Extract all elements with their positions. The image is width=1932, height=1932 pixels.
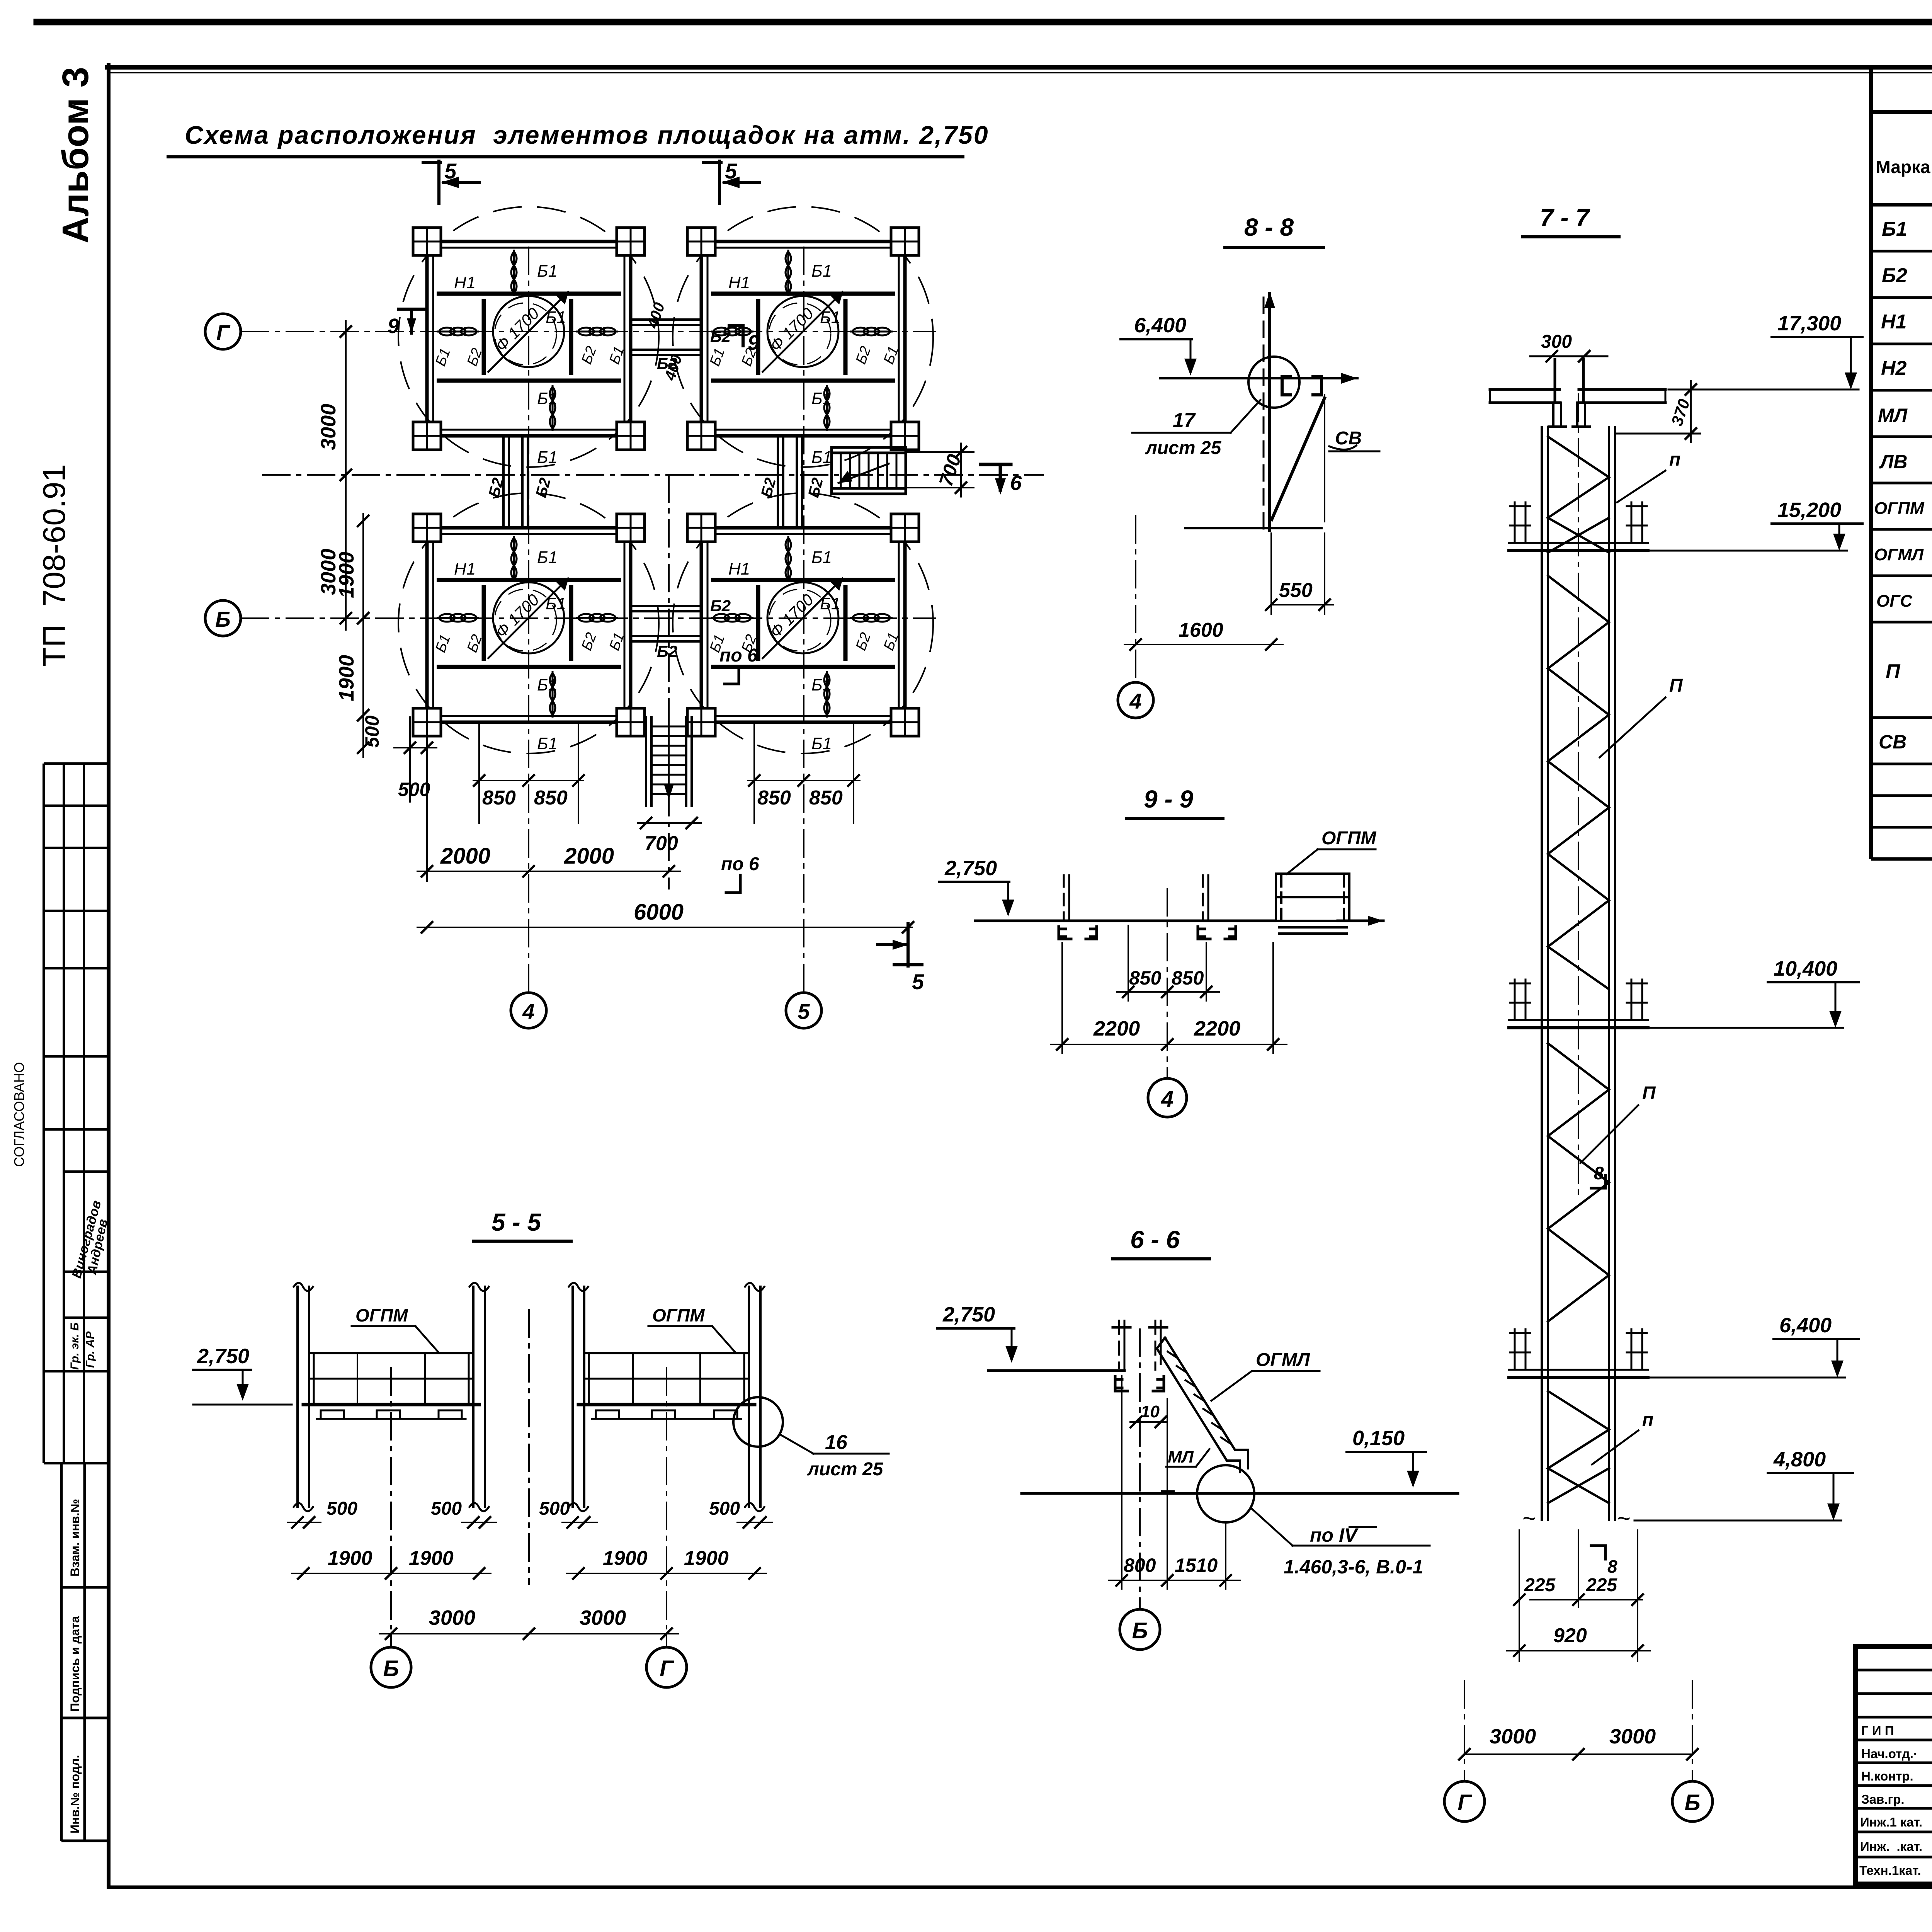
dim 3000 3000 with bubbles (1464, 1753, 1692, 1755)
section mark 9 right small (729, 326, 743, 346)
svg-text:1900: 1900 (328, 1547, 372, 1570)
svg-text:850: 850 (809, 787, 843, 809)
axis bubble 4 (1167, 889, 1168, 1078)
svg-text:СВ: СВ (1879, 731, 1906, 753)
column dashed verticals (1119, 1321, 1161, 1370)
svg-text:4,800: 4,800 (1773, 1448, 1826, 1471)
svg-text:Взам. инв.№: Взам. инв.№ (68, 1499, 82, 1577)
bottom floor line (1185, 527, 1321, 529)
svg-text:Инж. .кат.: Инж. .кат. (1860, 1839, 1922, 1854)
svg-text:ЛВ: ЛВ (1879, 451, 1907, 473)
svg-text:17: 17 (1173, 409, 1196, 432)
svg-text:225: 225 (1524, 1575, 1556, 1595)
left channel post (1064, 875, 1069, 920)
upper stamp grid (44, 764, 109, 1463)
leader and label 17 / лист 25 (1231, 400, 1260, 433)
dims 850 850 left square (473, 780, 583, 781)
svg-text:2000: 2000 (440, 844, 490, 869)
svg-text:Н.контр.: Н.контр. (1861, 1769, 1913, 1783)
svg-text:3000: 3000 (1609, 1725, 1656, 1748)
svg-text:16: 16 (825, 1431, 848, 1454)
svg-text:4: 4 (522, 999, 534, 1024)
right stair width dim 700 (960, 444, 962, 497)
svg-text:ОГМЛ: ОГМЛ (1874, 545, 1924, 564)
svg-text:ОГС: ОГС (1876, 592, 1913, 611)
svg-text:лист 25: лист 25 (807, 1459, 884, 1480)
section mark 6 right (981, 464, 1011, 490)
section marks 5 top (423, 161, 479, 204)
platform level 15.200 (1509, 502, 1648, 551)
svg-text:6000: 6000 (634, 900, 684, 925)
personnel labels (1859, 1723, 1922, 1878)
link beams between TL-TR (631, 320, 701, 355)
svg-text:Б2: Б2 (657, 642, 677, 660)
svg-text:2000: 2000 (564, 844, 614, 869)
lower landing (1227, 1450, 1248, 1472)
svg-text:по 6: по 6 (721, 854, 759, 874)
svg-text:Б: Б (215, 607, 231, 631)
svg-text:2200: 2200 (1093, 1017, 1140, 1040)
bottom dims (1530, 1599, 1642, 1600)
svg-text:2200: 2200 (1194, 1017, 1240, 1040)
svg-text:МЛ: МЛ (1878, 405, 1908, 426)
grid mid axis dash-dot (263, 474, 1043, 476)
dims 850 850 right square (748, 780, 860, 781)
grid axis 5 vertical dash-dot (803, 247, 804, 991)
svg-text:1900: 1900 (603, 1547, 648, 1570)
title underline (168, 155, 963, 158)
assembly B (shifted +712) (569, 1283, 764, 1511)
svg-text:7 - 7: 7 - 7 (1540, 204, 1590, 231)
svg-text:Н1: Н1 (1881, 311, 1906, 333)
svg-text:1510: 1510 (1175, 1554, 1218, 1576)
svg-text:8: 8 (1594, 1163, 1604, 1183)
svg-text:Гр. эк. Б: Гр. эк. Б (68, 1323, 81, 1370)
svg-text:500: 500 (327, 1498, 357, 1519)
frame left line (107, 65, 111, 1887)
svg-text:2,750: 2,750 (944, 857, 997, 880)
grid bubble 5 (786, 993, 821, 1028)
dims 850 850 (1117, 991, 1219, 993)
column top posts (I-beam stubs) (1549, 403, 1590, 427)
svg-text:п: п (1669, 449, 1680, 470)
svg-text:5 - 5: 5 - 5 (492, 1208, 541, 1236)
dim 1900 1900 x2 (292, 1573, 491, 1574)
vertical post solid+dashed (1268, 294, 1271, 530)
svg-text:по 6: по 6 (719, 645, 758, 666)
svg-text:4: 4 (1129, 689, 1141, 713)
svg-text:850: 850 (1172, 967, 1204, 989)
outer borders (1869, 69, 1873, 859)
svg-text:5: 5 (725, 159, 737, 183)
svg-text:500: 500 (539, 1498, 570, 1519)
svg-text:ОГПМ: ОГПМ (1321, 828, 1376, 849)
svg-text:3000: 3000 (317, 404, 340, 450)
section marks 5 bottom (878, 923, 922, 966)
ground line (1022, 1492, 1458, 1495)
svg-text:П: П (1642, 1083, 1656, 1104)
svg-text:1900: 1900 (335, 655, 358, 701)
frame top line (107, 65, 1932, 70)
svg-text:9: 9 (748, 331, 759, 354)
lower stamp strip (61, 1463, 109, 1841)
link beams between TL-BL vertical (503, 437, 528, 527)
svg-text:Б: Б (1684, 1790, 1700, 1815)
svg-text:Г: Г (660, 1656, 674, 1681)
svg-text:1900: 1900 (335, 552, 358, 598)
svg-text:5: 5 (798, 999, 810, 1024)
dim 700 bottom stair (638, 822, 701, 824)
svg-text:Б2: Б2 (710, 327, 731, 345)
right stair (hatched) (832, 447, 906, 494)
channel glyphs at joint (1282, 377, 1291, 395)
svg-text:1600: 1600 (1179, 619, 1223, 641)
svg-text:Н2: Н2 (1881, 357, 1907, 379)
svg-text:6,400: 6,400 (1779, 1314, 1832, 1337)
svg-text:17,300: 17,300 (1777, 312, 1841, 335)
dims 2200 2200 (1051, 1044, 1287, 1045)
axis to bubble 4 (1135, 516, 1136, 681)
columns (298, 1287, 485, 1507)
svg-text:550: 550 (1279, 579, 1313, 602)
section marks 8 (1591, 1175, 1605, 1188)
leader to по IV (1252, 1509, 1293, 1546)
platform level 10.400 (1509, 980, 1648, 1028)
ladder steps (1168, 1352, 1231, 1444)
svg-text:СОГЛАСОВАНО: СОГЛАСОВАНО (11, 1062, 27, 1167)
top platform (two plates with gap) (1490, 388, 1560, 391)
header bottom (1871, 203, 1932, 207)
floor line (975, 920, 1275, 922)
svg-text:Г: Г (216, 320, 231, 345)
assembly A (294, 1283, 489, 1511)
svg-text:1900: 1900 (684, 1547, 729, 1570)
ladder stringer double (1165, 1338, 1235, 1450)
channel glyphs below floor (1115, 1376, 1128, 1391)
svg-text:МЛ: МЛ (1168, 1447, 1194, 1466)
svg-text:ОГМЛ: ОГМЛ (1256, 1350, 1310, 1370)
svg-text:П: П (1886, 660, 1901, 683)
svg-text:Альбом 3: Альбом 3 (55, 67, 96, 243)
bottom small dim 500 (left square) (394, 747, 437, 748)
break marks (294, 1283, 313, 1291)
svg-text:5: 5 (444, 159, 457, 183)
grid axis Г dash-dot (241, 331, 935, 332)
svg-text:9: 9 (388, 315, 399, 338)
svg-text:225: 225 (1586, 1575, 1617, 1595)
svg-text:лист 25: лист 25 (1145, 438, 1222, 458)
svg-text:Нач.отд.·: Нач.отд.· (1861, 1747, 1918, 1761)
detail circle (1197, 1465, 1254, 1522)
svg-text:ОГПМ: ОГПМ (355, 1305, 408, 1325)
svg-text:Б2: Б2 (1882, 264, 1907, 287)
svg-text:0,150: 0,150 (1352, 1427, 1405, 1450)
svg-text:Подпись и дата: Подпись и дата (68, 1616, 82, 1712)
svg-text:Техн.1кат.: Техн.1кат. (1859, 1863, 1921, 1878)
svg-text:Гр. АР: Гр. АР (84, 1331, 97, 1368)
svg-text:Г: Г (1458, 1790, 1472, 1815)
svg-text:Б1: Б1 (1882, 218, 1907, 240)
svg-text:850: 850 (482, 787, 516, 809)
svg-text:3000: 3000 (1490, 1725, 1536, 1748)
dims 800 1510 (1109, 1580, 1240, 1581)
svg-text:850: 850 (757, 787, 791, 809)
grid axis Б dash-dot (241, 617, 935, 619)
svg-text:ТП 708-60.91: ТП 708-60.91 (37, 464, 72, 667)
stair axis vertical dash-dot (668, 475, 670, 889)
under-floor supports (317, 1410, 466, 1419)
platform level 6.400 (1509, 1329, 1648, 1378)
svg-text:8 - 8: 8 - 8 (1244, 213, 1294, 241)
top thick edge line (37, 19, 1932, 26)
svg-text:6,400: 6,400 (1134, 314, 1186, 337)
svg-text:6 - 6: 6 - 6 (1130, 1226, 1180, 1253)
svg-text:Б: Б (1132, 1618, 1148, 1643)
top level line with arrow right (1160, 377, 1357, 379)
svg-text:3000: 3000 (429, 1606, 475, 1629)
column axis dash-dot (1578, 394, 1579, 1198)
svg-text:850: 850 (534, 787, 568, 809)
OGPM frame right (1276, 874, 1349, 934)
svg-text:300: 300 (1541, 332, 1572, 352)
grid axis 4 vertical dash-dot (528, 247, 529, 991)
floor line (988, 1369, 1124, 1372)
svg-text:Схема расположения элементов: Схема расположения элементов площадок на… (185, 121, 989, 149)
svg-text:~: ~ (1617, 1505, 1631, 1531)
bottom stair (ladder between BL and BR) (646, 717, 692, 806)
svg-text:Б: Б (383, 1656, 399, 1681)
svg-text:500: 500 (709, 1498, 740, 1519)
svg-text:ОГПМ: ОГПМ (1874, 499, 1925, 518)
axis bubble Б (1139, 1329, 1141, 1609)
diagonal brace СВ (1272, 398, 1325, 520)
right channel post (1203, 875, 1208, 920)
svg-text:Зав.гр.: Зав.гр. (1861, 1792, 1905, 1806)
svg-text:500: 500 (398, 779, 430, 800)
svg-text:9 - 9: 9 - 9 (1144, 785, 1193, 813)
detail circle 16 (733, 1397, 783, 1447)
svg-text:Марка: Марка (1876, 157, 1930, 177)
svg-text:10: 10 (1141, 1402, 1160, 1421)
svg-text:2,750: 2,750 (942, 1303, 995, 1326)
row lines (1871, 250, 1932, 253)
frame bottom line (109, 1886, 1932, 1889)
svg-text:Б2: Б2 (710, 597, 731, 615)
main rails (1542, 427, 1615, 1520)
grid bubble Б (205, 600, 241, 636)
svg-text:СВ: СВ (1335, 428, 1362, 449)
svg-text:ОГПМ: ОГПМ (652, 1305, 705, 1325)
middle column above cap (1555, 359, 1583, 403)
svg-text:15,200: 15,200 (1777, 498, 1841, 522)
svg-text:5: 5 (912, 969, 924, 994)
dim 550 (1271, 604, 1333, 605)
left dimension chain 1900/1900/500 (362, 514, 364, 757)
detail circle (1248, 357, 1299, 408)
svg-text:Инж.1 кат.: Инж.1 кат. (1860, 1815, 1922, 1829)
svg-text:3000: 3000 (580, 1606, 626, 1629)
dim 2000 2000 (417, 871, 680, 872)
svg-text:10,400: 10,400 (1774, 957, 1837, 980)
svg-text:4: 4 (1161, 1087, 1173, 1112)
dim 3000 3000 (379, 1633, 678, 1634)
dim 370 rotated (1615, 433, 1700, 435)
link beams between BL-BR (631, 606, 701, 641)
grid bubble 4 (511, 993, 546, 1028)
svg-text:920: 920 (1553, 1624, 1587, 1647)
dim rows: 500s (288, 1522, 772, 1523)
left dimension chain 3000/3000 (345, 321, 347, 630)
svg-text:~: ~ (1522, 1505, 1536, 1531)
svg-text:2,750: 2,750 (197, 1345, 249, 1368)
svg-text:8: 8 (1607, 1556, 1617, 1577)
svg-text:Инв.№ подл.: Инв.№ подл. (68, 1755, 82, 1833)
svg-text:1.460,3-6, В.0-1: 1.460,3-6, В.0-1 (1284, 1556, 1423, 1578)
svg-text:500: 500 (431, 1498, 462, 1519)
svg-text:850: 850 (1129, 967, 1162, 989)
svg-text:П: П (1669, 675, 1683, 696)
svg-text:500: 500 (361, 715, 383, 748)
link beams between TR-BR vertical (778, 437, 802, 527)
lattice bracing zigzag (1548, 437, 1609, 1503)
dim 1600 (1124, 644, 1283, 645)
dim 6000 (417, 927, 912, 928)
title band bottom (1871, 110, 1932, 114)
section mark 9 left (399, 309, 424, 333)
svg-text:700: 700 (645, 832, 678, 855)
platform rails (309, 1352, 473, 1354)
axes and bubbles (390, 1368, 392, 1629)
platform squares (398, 207, 659, 467)
svg-text:Г И П: Г И П (1861, 1723, 1894, 1738)
svg-text:6: 6 (1010, 471, 1022, 495)
svg-text:1900: 1900 (409, 1547, 454, 1570)
svg-text:п: п (1642, 1410, 1653, 1430)
grid bubble Г (205, 314, 241, 349)
